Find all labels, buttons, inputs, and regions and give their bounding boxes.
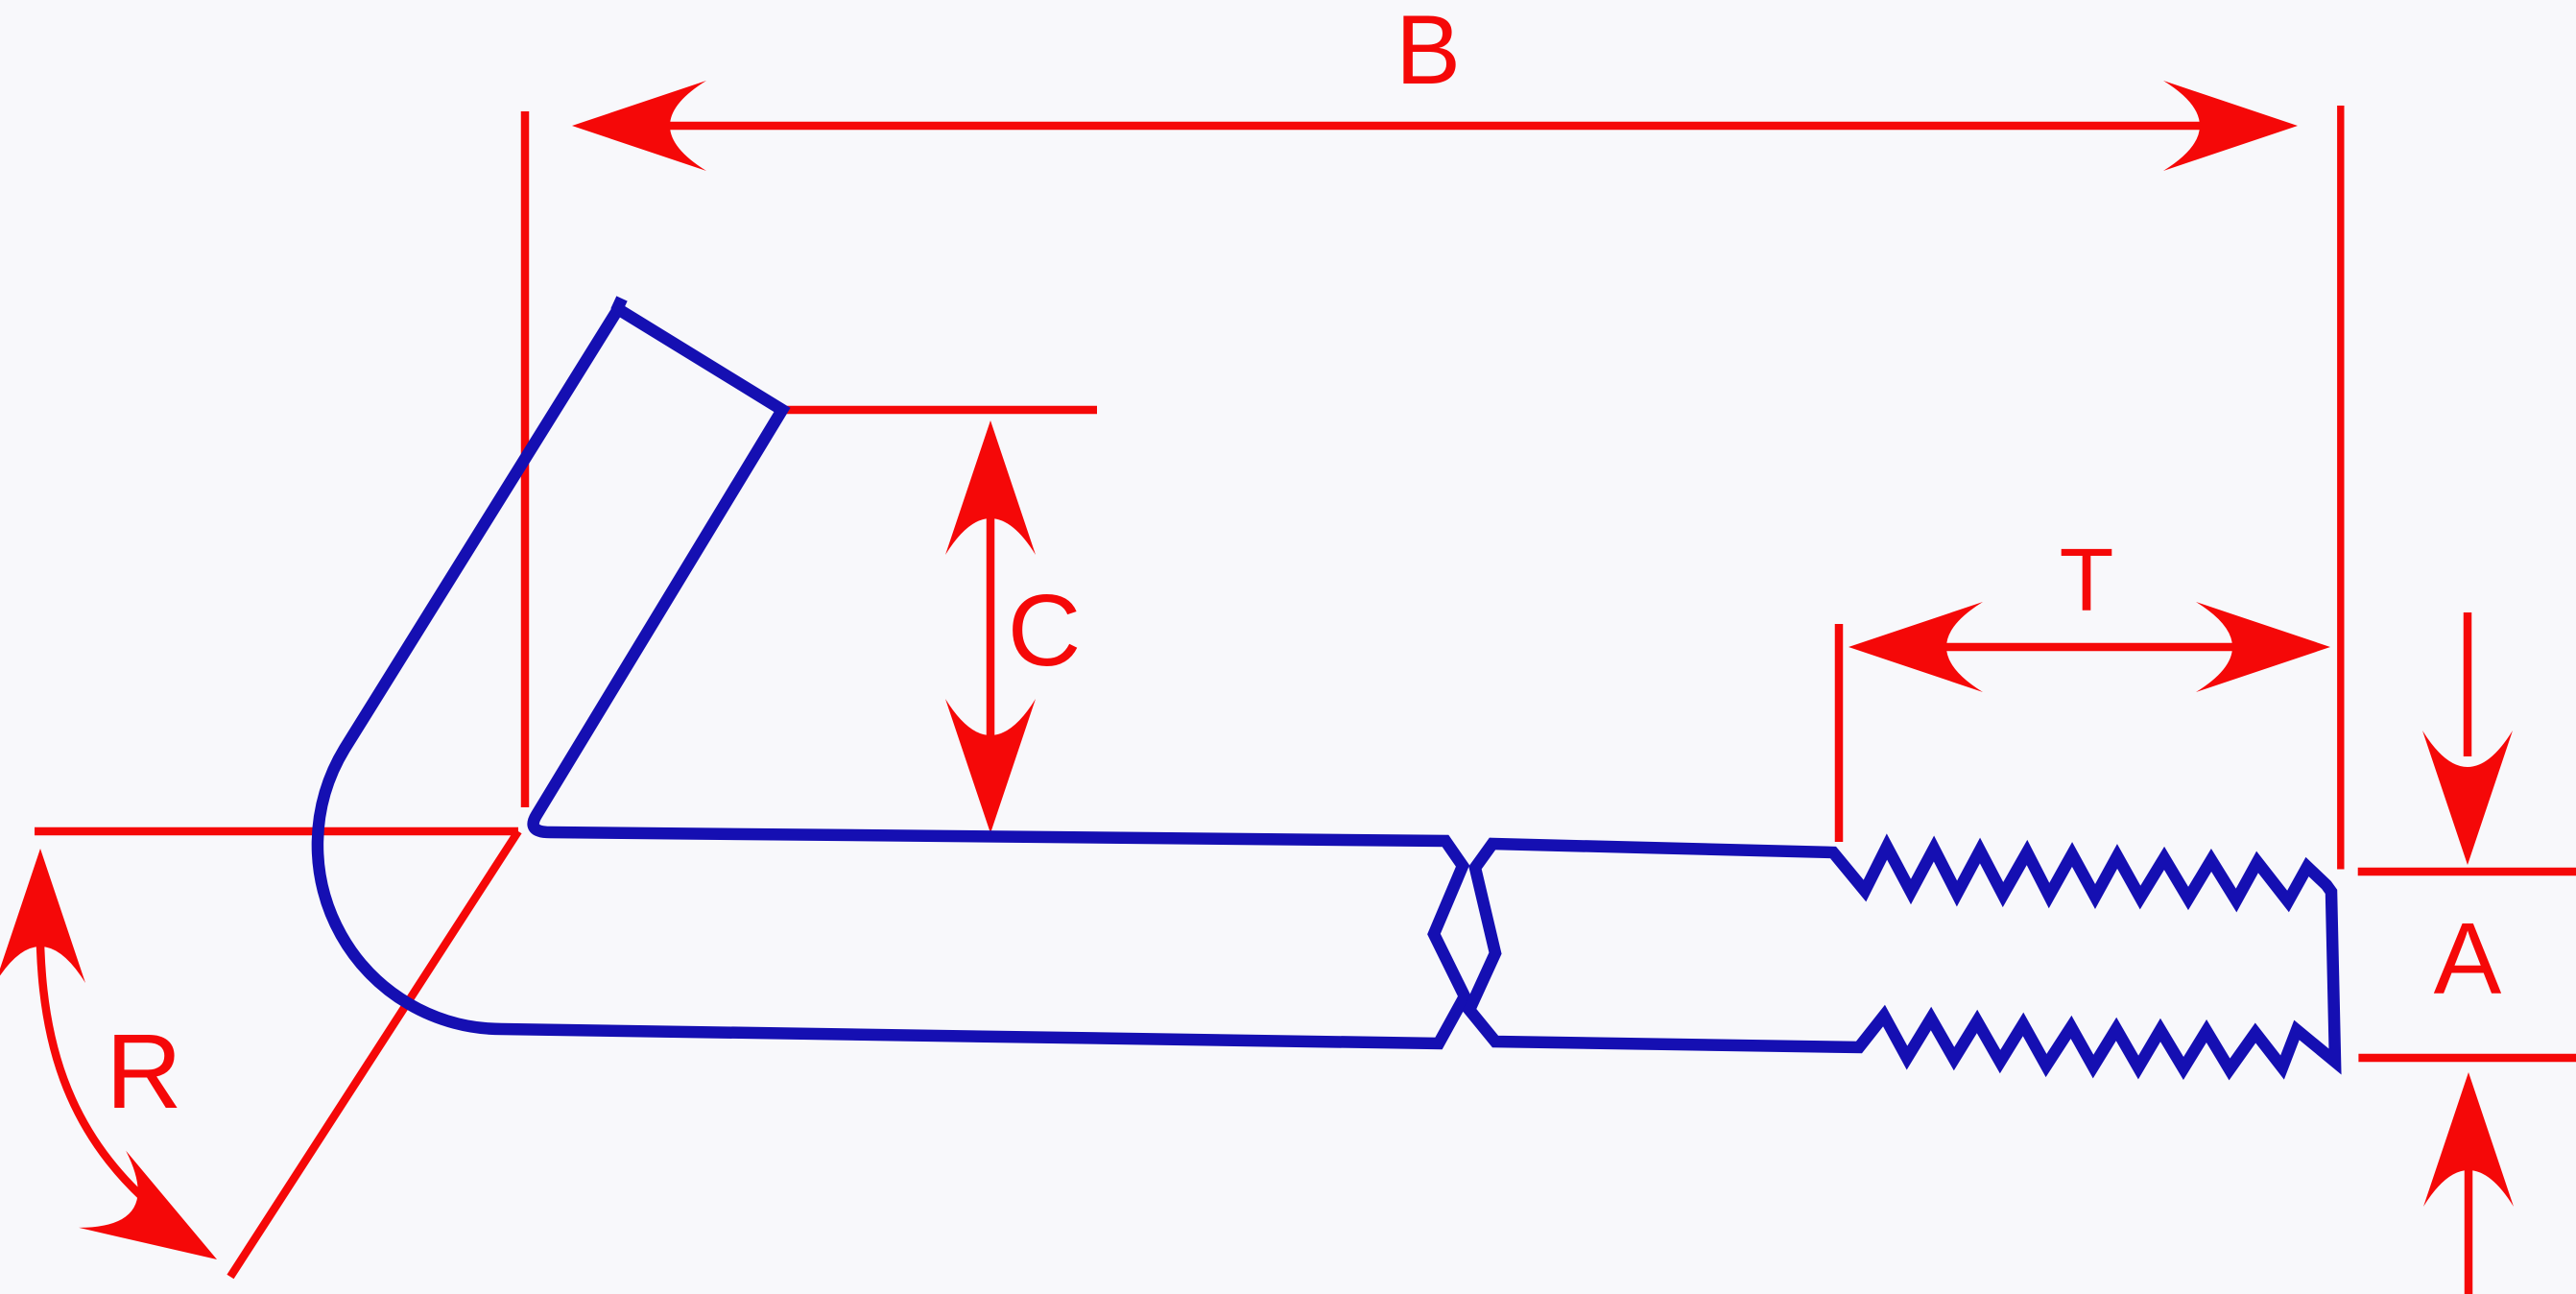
hook bolt right segment outline with threads — [1469, 844, 2335, 1069]
arrowhead T right — [2196, 602, 2330, 692]
curved leader R — [40, 893, 187, 1234]
arrowhead C up — [945, 420, 1036, 555]
svg-text:T: T — [2060, 530, 2114, 630]
svg-text:A: A — [2434, 902, 2502, 1016]
dimension line T — [1870, 643, 2311, 652]
reference line C top — [782, 406, 1097, 415]
A leader up line — [2465, 1168, 2473, 1294]
A top line — [2358, 868, 2576, 876]
extension line left (B) — [521, 111, 530, 807]
A bottom line — [2358, 1054, 2576, 1063]
arrowhead A up — [2423, 1072, 2514, 1207]
extension line T left — [1835, 624, 1844, 842]
svg-text:R: R — [106, 1013, 181, 1131]
arrowhead R top — [0, 849, 85, 983]
dimension line B — [595, 122, 2277, 131]
arrowhead A down — [2422, 731, 2513, 865]
radius line R diagonal — [230, 831, 518, 1277]
arrowhead R bottom — [79, 1151, 240, 1294]
A leader down line — [2464, 612, 2472, 756]
extension line right (B) — [2337, 106, 2344, 870]
hook bolt left segment outline — [318, 309, 1465, 1043]
arrowhead B left — [572, 81, 706, 171]
svg-text:B: B — [1395, 0, 1461, 105]
dimension line C — [987, 440, 995, 816]
reference line R horizontal — [35, 827, 518, 836]
svg-text:C: C — [1008, 574, 1082, 687]
hook tip spur — [616, 299, 622, 311]
arrowhead C down — [945, 699, 1036, 833]
arrowhead B right — [2163, 81, 2298, 171]
arrowhead T left — [1849, 602, 1983, 692]
